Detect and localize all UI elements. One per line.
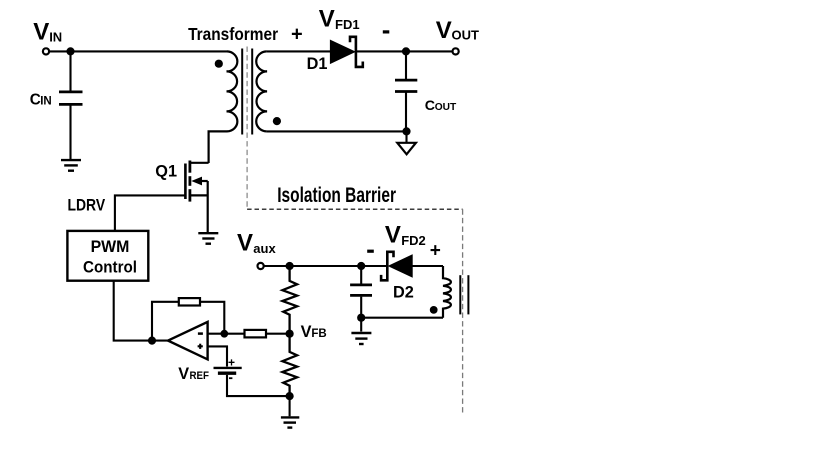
svg-text:V: V — [319, 5, 335, 32]
label VFD1 — [319, 5, 360, 32]
node secondary polarity dot — [273, 117, 281, 125]
resistor R4 divider bottom (zigzag) — [282, 334, 297, 396]
node VOUT terminal — [453, 48, 459, 54]
svg-text:OUT: OUT — [435, 102, 457, 113]
svg-text:V: V — [385, 222, 401, 249]
wire D2 anode to aux winding — [412, 265, 443, 267]
wire Vaux rail — [264, 265, 361, 267]
svg-text:IN: IN — [49, 29, 62, 44]
PWM Control box U1 — [67, 231, 148, 281]
label Vaux — [237, 230, 276, 257]
label op-amp plus — [198, 344, 203, 349]
gate bar — [184, 164, 187, 200]
transformer T1 secondary winding — [256, 51, 267, 131]
node junction VIN — [66, 47, 74, 55]
wire inverting input — [208, 333, 245, 335]
inductor L1 aux winding — [443, 266, 451, 318]
label PWM Control — [83, 238, 137, 276]
wire non-inverting input to VREF — [208, 346, 227, 366]
transformer core lines — [242, 49, 252, 135]
node junction inverting input — [220, 330, 228, 338]
label VOUT — [436, 17, 479, 44]
wire aux bottom to ground — [360, 318, 362, 332]
battery VREF — [214, 355, 242, 378]
ground aux — [351, 333, 371, 344]
ground Q1 source — [198, 233, 218, 244]
wire PWM output to op-amp — [114, 281, 169, 341]
svg-text:C: C — [425, 98, 435, 114]
node junction aux cap top — [357, 262, 365, 270]
svg-text:FD1: FD1 — [335, 17, 360, 32]
svg-text:V: V — [178, 365, 189, 383]
label - (VFD1 minus) — [383, 30, 390, 33]
svg-text:V: V — [33, 18, 49, 45]
wire CIN to ground — [69, 106, 71, 160]
diode D1 (schottky) — [330, 37, 362, 67]
wire aux cap top — [360, 266, 362, 284]
wire R2 to VFB node — [266, 333, 290, 335]
wire VREF bottom to divider bottom — [227, 375, 290, 396]
node junction secondary bottom — [402, 127, 410, 135]
wire top rail VIN to transformer primary — [50, 50, 228, 52]
isolation barrier dashed line (horizontal) — [247, 208, 463, 210]
svg-text:LDRV: LDRV — [68, 197, 106, 215]
node junction divider top — [286, 262, 294, 270]
drain connection — [190, 162, 209, 164]
svg-text:D2: D2 — [393, 283, 414, 301]
ground earth triangle (secondary) — [397, 143, 416, 155]
svg-text:V: V — [237, 230, 253, 257]
wire to earth — [405, 131, 407, 142]
op-amp U2 error amplifier — [168, 322, 208, 360]
wire VIN down to CIN — [69, 51, 71, 91]
wire Vaux to D2 — [290, 265, 388, 267]
capacitor CIN — [59, 92, 83, 105]
wire secondary bottom rail — [267, 130, 407, 132]
node junction COUT top — [402, 47, 410, 55]
wire COUT top — [405, 51, 407, 79]
transistor Q1 — [185, 161, 208, 233]
svg-text:V: V — [436, 17, 452, 44]
wire feedback loop up and over — [152, 302, 179, 341]
body arrow — [191, 177, 202, 186]
svg-text:+: + — [291, 24, 303, 46]
svg-text:FD2: FD2 — [401, 233, 426, 248]
label CIN — [30, 92, 52, 109]
label VIN — [33, 18, 62, 45]
svg-text:OUT: OUT — [452, 28, 480, 43]
label VREF — [178, 365, 209, 383]
svg-text:IN: IN — [40, 96, 52, 108]
node junction aux bottom — [357, 314, 365, 322]
label VFB — [301, 323, 327, 341]
ground divider — [281, 417, 299, 427]
resistor R2 (box) to VFB — [245, 330, 267, 338]
aux transformer core lines — [460, 275, 468, 314]
wire D1 to VOUT — [356, 50, 453, 52]
diode D2 (schottky, pointing left) — [381, 252, 412, 280]
capacitor COUT — [395, 80, 417, 91]
resistor R1 feedback (box) — [179, 298, 200, 305]
svg-text:+: + — [228, 355, 235, 369]
wire feedback to inverting input — [200, 302, 224, 334]
transformer T1 primary winding — [209, 51, 238, 163]
svg-text:Q1: Q1 — [155, 163, 177, 181]
node junction divider bottom — [286, 392, 294, 400]
svg-text:D1: D1 — [307, 55, 328, 73]
source connection — [190, 194, 208, 196]
svg-text:FB: FB — [311, 328, 326, 340]
wire COUT bottom — [405, 93, 407, 132]
svg-text:V: V — [301, 323, 312, 341]
channel bars — [188, 161, 191, 173]
isolation barrier dashed line (right vertical through aux core) — [462, 209, 464, 415]
svg-text:Isolation Barrier: Isolation Barrier — [277, 184, 396, 207]
capacitor C1 aux — [350, 285, 372, 296]
node Vaux terminal — [258, 263, 264, 269]
svg-text:Transformer: Transformer — [188, 24, 278, 44]
svg-text:+: + — [430, 241, 441, 262]
svg-text:REF: REF — [190, 370, 210, 382]
wire divider bottom to ground — [289, 396, 291, 416]
node aux winding polarity dot — [430, 306, 438, 314]
wire secondary top to D1 — [267, 50, 331, 52]
node VFB junction — [286, 330, 294, 338]
svg-text:aux: aux — [253, 241, 276, 256]
svg-text:PWM: PWM — [91, 238, 130, 256]
ground CIN — [61, 160, 81, 171]
svg-text:Control: Control — [83, 258, 137, 276]
label COUT — [425, 98, 457, 114]
node primary polarity dot — [215, 60, 223, 68]
isolation barrier dashed line (left vertical through transformer) — [246, 47, 248, 210]
label VFD2 — [385, 222, 426, 249]
wire aux winding bottom — [361, 317, 443, 319]
node VIN terminal — [43, 48, 49, 54]
resistor R3 divider top (zigzag) — [282, 266, 297, 334]
wire aux cap bottom — [360, 297, 362, 318]
node junction op-amp output — [148, 337, 156, 345]
label - (VFD2 minus) — [367, 250, 374, 253]
wire gate LDRV — [115, 195, 185, 231]
label op-amp minus — [198, 332, 203, 335]
